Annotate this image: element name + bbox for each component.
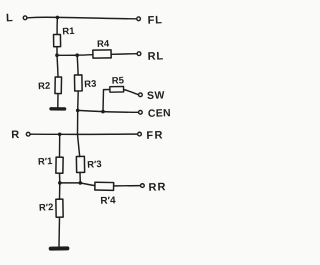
wire R3 bottom to node D bbox=[77, 91, 80, 110]
resistor R1 bbox=[54, 34, 61, 46]
svg-text:RR: RR bbox=[148, 181, 166, 194]
wire R4 right to RL terminal bbox=[111, 53, 137, 56]
terminal FR bbox=[138, 132, 142, 136]
wire R input to node F bbox=[30, 133, 59, 135]
resistor R3 bbox=[74, 75, 82, 91]
wire node D down across R row to R'3 top bbox=[78, 110, 80, 156]
terminal FL bbox=[137, 17, 141, 21]
wire node D to node E bbox=[78, 110, 103, 111]
wire R1 bottom to node B bbox=[56, 47, 58, 55]
terminal RL bbox=[137, 52, 141, 56]
node H junction bbox=[79, 181, 83, 185]
wire R2 bottom to ground 1 bbox=[57, 94, 59, 107]
wire node G down to R'2 top bbox=[59, 183, 61, 199]
node G junction bbox=[58, 181, 62, 185]
node F junction bbox=[58, 133, 62, 137]
wire R'1 bottom to node G bbox=[59, 173, 61, 183]
svg-text:FL: FL bbox=[147, 14, 162, 27]
wire node A down to R1 top bbox=[56, 17, 58, 34]
svg-text:SW: SW bbox=[147, 89, 165, 102]
wire node G to node H bbox=[60, 182, 81, 184]
wire node C down to R3 top bbox=[76, 55, 79, 75]
ground 1 (below R2) bbox=[51, 107, 65, 110]
wire node F down to R'1 top bbox=[59, 134, 61, 157]
node D junction bbox=[76, 109, 80, 113]
wire node B to node C bbox=[57, 54, 77, 56]
svg-text:RL: RL bbox=[147, 50, 164, 63]
svg-text:FR: FR bbox=[146, 129, 164, 142]
svg-text:R4: R4 bbox=[97, 39, 110, 50]
svg-text:R2: R2 bbox=[38, 81, 51, 93]
wire node E to CEN terminal bbox=[103, 111, 138, 114]
wire node C to R4 left bbox=[77, 54, 93, 57]
wire node H to R'4 left bbox=[80, 183, 95, 186]
terminal L input bbox=[23, 16, 27, 20]
svg-text:R′1: R′1 bbox=[38, 156, 54, 168]
resistor R'2 bbox=[56, 199, 63, 217]
resistor R2 bbox=[55, 77, 62, 94]
terminal CEN bbox=[139, 110, 143, 114]
wire R'4 right to RR terminal bbox=[114, 185, 141, 187]
terminal SW bbox=[139, 93, 143, 97]
svg-text:R′3: R′3 bbox=[87, 159, 102, 171]
wire R'2 bottom to ground 2 bbox=[58, 217, 61, 246]
wire R5 right to SW terminal bbox=[124, 90, 139, 95]
svg-text:CEN: CEN bbox=[148, 107, 171, 120]
node C junction bbox=[75, 53, 79, 57]
svg-text:L: L bbox=[6, 12, 13, 24]
resistor R'3 bbox=[76, 156, 84, 172]
svg-text:R5: R5 bbox=[112, 75, 125, 86]
svg-text:R1: R1 bbox=[62, 26, 75, 38]
resistor R4 bbox=[93, 50, 111, 58]
svg-text:R′2: R′2 bbox=[39, 202, 54, 214]
svg-text:R′4: R′4 bbox=[100, 195, 116, 207]
resistor R'1 bbox=[56, 157, 63, 173]
svg-text:R: R bbox=[11, 129, 19, 141]
resistor R5 bbox=[110, 86, 124, 92]
terminal RR bbox=[141, 184, 145, 188]
node A junction bbox=[56, 16, 60, 20]
wire L input to node A bbox=[27, 16, 57, 19]
wire node A to FL terminal bbox=[57, 17, 136, 18]
wire node E up to R5 left bbox=[103, 90, 110, 112]
node B junction bbox=[55, 53, 59, 57]
svg-text:R3: R3 bbox=[84, 79, 97, 91]
wire R'3 bottom to node H bbox=[79, 172, 81, 183]
wire node F to FR terminal bbox=[60, 133, 138, 135]
ground 2 (below R'2) bbox=[51, 246, 68, 250]
resistor R'4 bbox=[95, 182, 114, 190]
wire node B down to R2 top bbox=[57, 55, 58, 77]
terminal R input bbox=[26, 132, 30, 136]
node E junction (R5 tap) bbox=[101, 110, 105, 114]
